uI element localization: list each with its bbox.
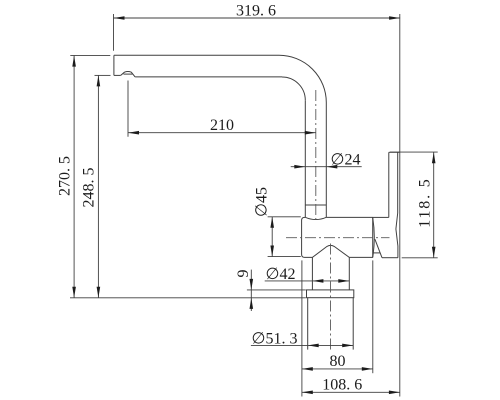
ext 210 left	[127, 81, 129, 137]
arrow 319.6 left	[114, 16, 125, 20]
dimension texts	[57, 3, 434, 394]
arrow O24 right (outside, points left)	[326, 165, 337, 169]
dim O51.3 line	[251, 344, 353, 346]
arrow 80 right	[362, 367, 373, 371]
ext 80/108.6 left	[301, 260, 303, 396]
dim 210 line	[128, 132, 316, 134]
ext 118.5 top	[390, 151, 438, 153]
arrow O42 right	[338, 279, 349, 283]
dim 80 line	[302, 368, 373, 370]
handle lever left edge	[388, 152, 390, 217]
hub inner ledge	[373, 252, 380, 254]
ext 80 right	[372, 260, 374, 373]
arrow 9 top (points down)	[250, 279, 254, 290]
svg-text:9: 9	[235, 270, 252, 278]
arrow 270.5 bottom	[72, 287, 76, 298]
svg-text:270. 5: 270. 5	[57, 156, 74, 196]
svg-text:319. 6: 319. 6	[236, 3, 276, 20]
dimension lines and extension lines	[70, 14, 438, 397]
arrow 210 left	[128, 131, 139, 135]
spout top line	[114, 54, 279, 56]
dim 118.5 line	[433, 152, 435, 258]
dim O42 leader and line	[265, 280, 350, 282]
vertical pipe left edge	[304, 100, 306, 217]
spout bottom-left line	[114, 74, 121, 76]
ext 9 top	[247, 289, 306, 291]
centerlines	[286, 90, 390, 352]
spout bottom line	[135, 76, 282, 78]
base cylinder left edge	[307, 298, 309, 350]
hub bottom edge	[382, 257, 398, 259]
base vertical centerline	[330, 244, 332, 353]
dim 9 line	[250, 270, 252, 311]
base plane extension line	[70, 297, 306, 299]
arrow O45 bottom	[270, 246, 274, 257]
dim 319.6 line	[114, 17, 401, 19]
arrow O45 top	[270, 217, 274, 228]
dim 270.5 line	[73, 56, 75, 298]
arrow 108.6 left	[302, 391, 313, 395]
arrow 118.5 bottom	[432, 247, 436, 258]
arrow O51.3 right	[342, 344, 353, 348]
vertical pipe right edge	[325, 103, 327, 218]
svg-text:∅51. 3: ∅51. 3	[252, 331, 298, 348]
body right end arc	[373, 217, 375, 257]
handle top cap	[389, 151, 400, 153]
arrow 9 bottom (points up)	[250, 298, 254, 309]
arrow 248.5 top	[97, 75, 101, 86]
ext O45 bottom	[268, 256, 301, 258]
svg-text:∅24: ∅24	[331, 152, 361, 169]
O42 neck left edge	[311, 257, 313, 290]
arrow O42 left	[312, 279, 323, 283]
svg-text:108. 6: 108. 6	[322, 377, 362, 394]
pipe joint line	[305, 204, 326, 206]
svg-text:118. 5: 118. 5	[417, 177, 434, 227]
spout inner bend arc	[282, 77, 305, 100]
handle right edge with waist taper	[396, 152, 398, 257]
body horizontal centerline	[286, 237, 390, 239]
arrow 210 right	[305, 131, 316, 135]
arrow 118.5 top	[432, 152, 436, 163]
dim 108.6 line	[302, 391, 400, 393]
dim O24 line	[291, 166, 362, 168]
aerator bump	[121, 72, 135, 77]
ext O45 top	[268, 216, 301, 218]
ext 319.6 / 108.6 right (shared)	[399, 14, 401, 397]
ext 270.5 top	[70, 54, 110, 56]
ext 248.5 top	[95, 74, 111, 76]
base flange	[307, 290, 354, 298]
hub bottom-left slant	[375, 239, 382, 258]
O42 neck right edge	[348, 257, 350, 290]
arrow 270.5 top	[72, 56, 76, 67]
base cylinder right edge	[352, 298, 354, 350]
arrow 319.6 right	[389, 16, 400, 20]
dim 248.5 line	[97, 75, 99, 297]
body right end cap line	[372, 217, 374, 257]
arrow 248.5 bottom	[97, 287, 101, 298]
arrow O24 left (outside, points right)	[294, 165, 305, 169]
dim O45 line	[271, 217, 273, 257]
arrow 108.6 right	[389, 391, 400, 395]
spout left end cap	[113, 55, 115, 75]
cone-body intersection tent	[312, 245, 349, 257]
hub step line	[373, 216, 389, 218]
svg-text:∅42: ∅42	[266, 266, 296, 283]
ext 319.6 left	[113, 14, 115, 51]
svg-text:210: 210	[210, 117, 234, 134]
arrowheads	[72, 16, 435, 394]
svg-text:∅45: ∅45	[254, 187, 271, 217]
arrow 80 left	[302, 367, 313, 371]
ext 118.5 bottom	[402, 257, 438, 259]
body cylinder outline	[302, 217, 313, 257]
arrow O51.3 left	[308, 344, 319, 348]
spout outer bend arc	[279, 55, 326, 102]
pipe bottom fillet dome	[305, 217, 326, 219]
svg-text:80: 80	[330, 353, 346, 370]
svg-text:248. 5: 248. 5	[81, 168, 98, 208]
body bottom right segment	[349, 256, 373, 258]
body top right segment	[326, 216, 373, 218]
aerator chord	[124, 73, 133, 75]
pipe vertical centerline	[315, 90, 317, 222]
